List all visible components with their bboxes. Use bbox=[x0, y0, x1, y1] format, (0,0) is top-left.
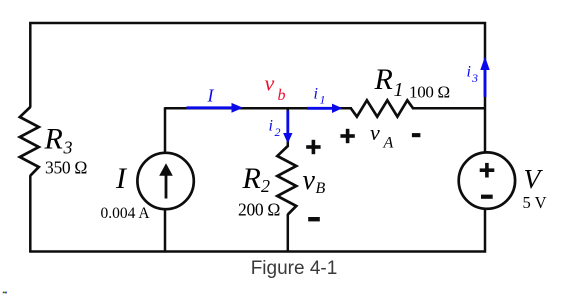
wire current source top stub bbox=[164, 107, 167, 153]
svg-text:I: I bbox=[207, 86, 215, 106]
svg-text:2: 2 bbox=[261, 176, 270, 196]
wire R2 top stub bbox=[287, 107, 290, 147]
svg-text:2: 2 bbox=[275, 125, 281, 139]
resistor R3 bbox=[20, 107, 39, 176]
resistor R2 bbox=[277, 146, 296, 215]
svg-text:3: 3 bbox=[63, 138, 73, 158]
current arrow i3 bbox=[480, 57, 489, 98]
wire middle horizontal left segment (node vb) bbox=[165, 107, 353, 110]
svg-text:b: b bbox=[278, 87, 286, 104]
polarity minus (vA) bbox=[412, 133, 421, 137]
svg-text:A: A bbox=[383, 135, 394, 152]
current source I bbox=[137, 153, 193, 209]
svg-text:v: v bbox=[265, 71, 275, 96]
current arrow i1 bbox=[307, 104, 343, 113]
current arrow I bbox=[187, 103, 244, 113]
svg-text:v: v bbox=[303, 165, 316, 196]
svg-text:i: i bbox=[467, 64, 471, 81]
svg-text:I: I bbox=[115, 162, 128, 195]
svg-text:R: R bbox=[242, 162, 261, 195]
svg-text:R: R bbox=[374, 63, 393, 96]
svg-text:i: i bbox=[269, 118, 273, 135]
wire current source bottom stub bbox=[164, 209, 167, 252]
polarity plus (vB) bbox=[306, 140, 320, 154]
svg-text:350 Ω: 350 Ω bbox=[45, 158, 87, 178]
svg-text:V: V bbox=[524, 163, 544, 194]
wire outer loop lower: left-bottom-right bbox=[30, 175, 485, 251]
svg-text:B: B bbox=[316, 180, 326, 197]
resistor R1 bbox=[351, 100, 413, 116]
svg-text:5 V: 5 V bbox=[523, 193, 547, 212]
wire middle horizontal right segment bbox=[412, 107, 486, 110]
svg-text:i: i bbox=[314, 86, 318, 103]
svg-text:1: 1 bbox=[394, 79, 404, 101]
current arrow i2 bbox=[283, 111, 292, 144]
svg-text:3: 3 bbox=[471, 71, 478, 85]
svg-text:R: R bbox=[44, 123, 63, 156]
polarity plus (V source) bbox=[480, 163, 495, 178]
polarity minus (V source) bbox=[481, 195, 493, 199]
svg-text:0.004 A: 0.004 A bbox=[101, 205, 151, 222]
svg-text:1: 1 bbox=[320, 93, 326, 107]
voltage source V bbox=[459, 152, 515, 208]
svg-text:v: v bbox=[370, 120, 380, 145]
svg-text:200 Ω: 200 Ω bbox=[238, 200, 280, 220]
wire R2 bottom stub bbox=[287, 214, 290, 252]
artifact mark bottom-left bbox=[3, 292, 7, 294]
wire outer loop upper: left-top-right bbox=[30, 23, 485, 153]
svg-text:100 Ω: 100 Ω bbox=[409, 83, 450, 102]
polarity plus (vA) bbox=[340, 129, 354, 143]
svg-text:Figure 4-1: Figure 4-1 bbox=[251, 258, 338, 279]
polarity minus (vB) bbox=[308, 217, 320, 221]
